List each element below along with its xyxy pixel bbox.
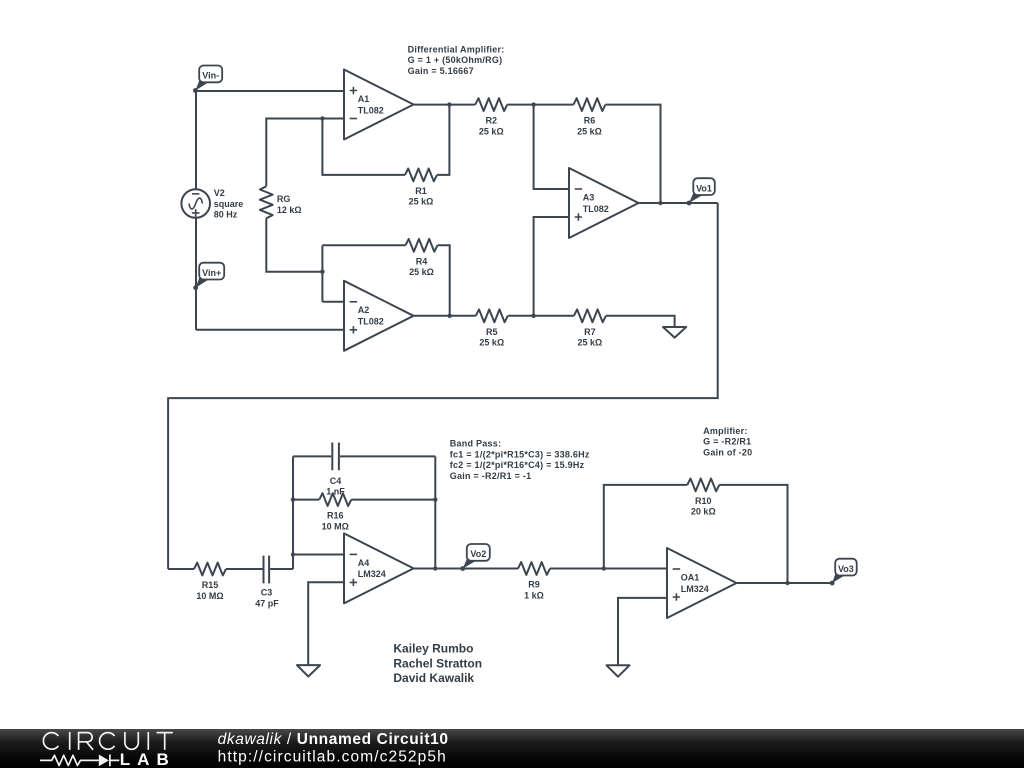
svg-text:TL082: TL082 xyxy=(358,317,384,327)
junction A1 output / R1 xyxy=(447,102,451,106)
op-amp OA1 xyxy=(667,548,737,618)
annotation amplifier note xyxy=(703,426,752,457)
svg-text:47 pF: 47 pF xyxy=(255,598,279,608)
svg-text:25 kΩ: 25 kΩ xyxy=(409,267,434,277)
svg-text:Vin-: Vin- xyxy=(202,71,219,81)
svg-text:Kailey Rumbo: Kailey Rumbo xyxy=(393,642,473,656)
wire A2 output to R5 xyxy=(414,315,476,317)
wire to A2 inverting input xyxy=(322,301,344,303)
junction left vertical / A4 inverting xyxy=(291,552,295,556)
node Vin- flag xyxy=(193,66,222,93)
svg-text:25 kΩ: 25 kΩ xyxy=(409,197,434,207)
svg-text:R6: R6 xyxy=(584,116,596,126)
voltage source V2 xyxy=(181,189,210,218)
svg-text:12 kΩ: 12 kΩ xyxy=(277,205,302,215)
svg-text:Differential Amplifier:: Differential Amplifier: xyxy=(408,44,505,54)
svg-text:R9: R9 xyxy=(528,580,540,590)
wire A1 output to R2 xyxy=(413,104,475,106)
svg-text:A1: A1 xyxy=(358,94,370,104)
junction R5 / R7 / A3 noninverting xyxy=(531,314,535,318)
wire R16 right xyxy=(351,499,435,501)
resistor R2 xyxy=(475,98,507,111)
svg-text:R16: R16 xyxy=(327,511,344,521)
wire Vo1 down across to lower stage xyxy=(168,203,718,569)
svg-text:Vo2: Vo2 xyxy=(470,549,486,559)
resistor R4 xyxy=(406,239,438,252)
svg-text:25 kΩ: 25 kΩ xyxy=(577,126,602,136)
svg-text:C3: C3 xyxy=(261,587,273,597)
wire vertical R4 branch to A2 inverting path xyxy=(321,245,323,301)
svg-text:R5: R5 xyxy=(486,327,498,337)
svg-text:Band Pass:: Band Pass: xyxy=(450,439,502,449)
wire OA1 output to Vo3 xyxy=(737,582,832,584)
junction A3 output / R6 feedback xyxy=(658,201,662,205)
svg-text:Vin+: Vin+ xyxy=(202,268,221,278)
annotation author names xyxy=(393,642,482,686)
junction A4 output / feedback xyxy=(433,566,437,570)
op-amp A2 xyxy=(344,281,414,351)
resistor R16 xyxy=(319,493,351,506)
junction R2 / R6 / A3 inverting xyxy=(531,102,535,106)
svg-text:http://circuitlab.com/c252p5h: http://circuitlab.com/c252p5h xyxy=(218,748,447,765)
annotation band pass note xyxy=(450,439,590,481)
junction OA1 output / R10 xyxy=(785,581,789,585)
resistor R6 xyxy=(574,98,606,111)
svg-text:1 kΩ: 1 kΩ xyxy=(524,590,544,600)
wire A3 noninverting input down to R5/R7 node xyxy=(534,217,569,316)
svg-text:RG: RG xyxy=(277,194,291,204)
node Vo1 flag xyxy=(687,178,715,205)
svg-text:25 kΩ: 25 kΩ xyxy=(479,126,504,136)
svg-text:LM324: LM324 xyxy=(358,569,386,579)
svg-text:1 nF: 1 nF xyxy=(326,487,345,497)
wire A1 inverting input to RG top xyxy=(266,119,344,187)
svg-text:Gain of -20: Gain of -20 xyxy=(703,447,752,457)
CircuitLab logo resistor-diode glyph xyxy=(40,755,119,767)
svg-text:80 Hz: 80 Hz xyxy=(214,210,238,220)
wire R9 to OA1 inverting input xyxy=(550,568,667,570)
resistor R5 xyxy=(476,309,508,322)
ground (OA1 noninverting input) xyxy=(607,665,630,676)
svg-text:25 kΩ: 25 kΩ xyxy=(578,338,603,348)
wire V2 bottom terminal to Vin+ corner xyxy=(195,218,197,330)
svg-text:C4: C4 xyxy=(330,476,342,486)
svg-text:G = 1 + (50kOhm/RG): G = 1 + (50kOhm/RG) xyxy=(408,55,503,65)
wire Vin+ corner to A2 noninverting input xyxy=(196,329,344,331)
CircuitLab logo CIRCUIT xyxy=(43,733,172,750)
svg-text:R15: R15 xyxy=(202,580,219,590)
wire node to A4 inverting input xyxy=(293,554,344,556)
resistor R9 xyxy=(518,562,550,575)
svg-text:square: square xyxy=(214,199,244,209)
capacitor C4 xyxy=(332,443,339,471)
wire left vertical C4 to C3 corner xyxy=(292,456,294,569)
svg-text:R1: R1 xyxy=(415,186,427,196)
wire A4 output to R9 xyxy=(413,568,518,570)
svg-text:TL082: TL082 xyxy=(358,105,384,115)
wire C4 right plate to right vertical xyxy=(340,455,435,457)
svg-text:A2: A2 xyxy=(358,305,370,315)
resistor R10 xyxy=(687,479,719,492)
wire R4 right down to A2 output node xyxy=(438,245,450,315)
junction RG / R4 vertical xyxy=(320,270,324,274)
junction left vertical / R16 left xyxy=(291,497,295,501)
resistor RG xyxy=(260,186,273,218)
wire R5 to R7 xyxy=(508,315,574,317)
junction A1 inverting / R1 xyxy=(320,116,324,120)
svg-text:Gain = 5.16667: Gain = 5.16667 xyxy=(408,66,474,76)
junction right vertical / R16 right xyxy=(433,497,437,501)
wire C3 right plate to left vertical xyxy=(270,568,293,570)
svg-text:OA1: OA1 xyxy=(681,572,700,582)
wire to C4 left plate xyxy=(293,455,331,457)
junction A2 output / R4 xyxy=(448,314,452,318)
svg-text:R7: R7 xyxy=(584,327,596,337)
svg-text:G = -R2/R1: G = -R2/R1 xyxy=(703,437,751,447)
svg-text:LAB: LAB xyxy=(120,750,176,768)
wire corner to R15 xyxy=(168,568,194,570)
wire node up to R10 left xyxy=(604,485,688,569)
svg-text:R4: R4 xyxy=(416,256,428,266)
svg-text:25 kΩ: 25 kΩ xyxy=(479,338,504,348)
wire to R16 left xyxy=(293,499,319,501)
node Vo3 flag xyxy=(830,559,857,586)
annotation differential amplifier note xyxy=(408,44,505,76)
op-amp A3 xyxy=(569,168,639,238)
wire RG bottom to node xyxy=(266,218,322,271)
svg-text:Amplifier:: Amplifier: xyxy=(703,426,748,436)
wire OA1 noninverting input to ground xyxy=(618,598,667,665)
ground (R7 return) xyxy=(663,327,686,338)
svg-text:fc1 = 1/(2*pi*R15*C3) = 338.6H: fc1 = 1/(2*pi*R15*C3) = 338.6Hz xyxy=(450,450,590,460)
svg-text:Gain = -R2/R1 = -1: Gain = -R2/R1 = -1 xyxy=(450,471,532,481)
wire R2/R6 node down to A3 inverting input xyxy=(534,105,569,189)
svg-text:Rachel Stratton: Rachel Stratton xyxy=(393,656,482,670)
resistor R7 xyxy=(574,309,606,322)
op-amp A4 xyxy=(344,533,414,603)
svg-text:R10: R10 xyxy=(695,496,712,506)
resistor R15 xyxy=(194,563,226,576)
wire R10 right down to OA1 output node xyxy=(719,485,787,583)
wire R1 right to A1 output node xyxy=(437,105,449,175)
wire R7 to ground xyxy=(606,316,675,327)
wire R15 to C3 xyxy=(226,568,263,570)
wire Vin- node to V2 top terminal xyxy=(195,91,197,189)
wire R6 right down to A3 output node xyxy=(606,105,661,203)
wire R2 to R6 xyxy=(507,104,573,106)
svg-text:10 MΩ: 10 MΩ xyxy=(196,591,223,601)
wire node to R1 left xyxy=(322,119,405,175)
junction R9 / R10 / OA1 inverting xyxy=(602,566,606,570)
wire Vin- to A1 noninverting input xyxy=(196,90,344,92)
wire node to R4 left xyxy=(322,244,405,246)
svg-text:dkawalik / Unnamed Circuit10: dkawalik / Unnamed Circuit10 xyxy=(218,731,449,748)
svg-text:LM324: LM324 xyxy=(681,584,709,594)
svg-text:David Kawalik: David Kawalik xyxy=(393,671,474,685)
svg-text:20 kΩ: 20 kΩ xyxy=(691,507,716,517)
ground (A4 noninverting input) xyxy=(297,665,320,676)
capacitor C3 xyxy=(264,556,270,584)
node Vin+ flag xyxy=(193,263,224,290)
resistor R1 xyxy=(405,169,437,182)
wire A3 output to Vo1 corner xyxy=(639,202,718,204)
wire A4 noninverting input to ground xyxy=(308,582,344,665)
svg-text:Vo1: Vo1 xyxy=(696,183,712,193)
node Vo2 flag xyxy=(460,544,489,571)
svg-text:V2: V2 xyxy=(214,188,225,198)
svg-text:TL082: TL082 xyxy=(583,204,609,214)
CircuitLab footer banner xyxy=(0,729,1024,768)
svg-text:R2: R2 xyxy=(486,116,498,126)
svg-text:10 MΩ: 10 MΩ xyxy=(322,521,349,531)
svg-text:A3: A3 xyxy=(583,192,595,202)
svg-text:A4: A4 xyxy=(358,558,370,568)
op-amp A1 xyxy=(344,70,414,140)
wire right vertical C4 to A4 output xyxy=(434,456,436,568)
svg-text:fc2 = 1/(2*pi*R16*C4) = 15.9Hz: fc2 = 1/(2*pi*R16*C4) = 15.9Hz xyxy=(450,460,585,470)
svg-text:Vo3: Vo3 xyxy=(838,564,854,574)
